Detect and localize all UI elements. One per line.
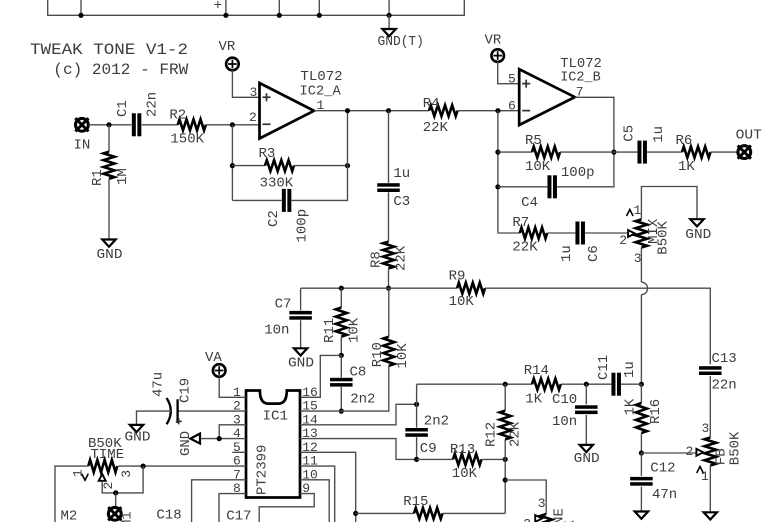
svg-text:10n: 10n — [552, 414, 577, 430]
svg-text:VR: VR — [219, 39, 236, 55]
svg-text:R6: R6 — [676, 133, 693, 149]
svg-text:2: 2 — [249, 110, 257, 125]
svg-text:M1: M1 — [119, 511, 135, 522]
svg-text:2: 2 — [101, 482, 116, 490]
svg-text:22K: 22K — [512, 240, 538, 256]
svg-text:10K: 10K — [525, 159, 551, 175]
svg-text:10n: 10n — [264, 323, 289, 339]
svg-text:C17: C17 — [226, 508, 251, 522]
svg-text:C11: C11 — [596, 355, 612, 380]
svg-text:3: 3 — [250, 85, 258, 100]
svg-text:C13: C13 — [712, 351, 737, 367]
svg-text:B50K: B50K — [727, 431, 743, 465]
svg-text:GND: GND — [574, 451, 600, 467]
svg-text:R14: R14 — [524, 363, 549, 379]
svg-text:3: 3 — [538, 496, 546, 511]
svg-text:B50K: B50K — [656, 220, 672, 254]
svg-text:R1: R1 — [90, 169, 106, 186]
svg-text:1K: 1K — [622, 398, 638, 415]
svg-text:R5: R5 — [525, 133, 542, 149]
svg-text:PT2399: PT2399 — [254, 445, 270, 495]
svg-text:GND: GND — [685, 227, 711, 243]
svg-text:2: 2 — [523, 517, 531, 522]
svg-text:1u: 1u — [651, 126, 667, 143]
svg-text:TWEAK TONE V1-2: TWEAK TONE V1-2 — [30, 41, 188, 59]
svg-text:47n: 47n — [652, 487, 677, 503]
svg-text:GND: GND — [288, 356, 314, 372]
svg-text:2n2: 2n2 — [424, 414, 449, 430]
svg-text:TIME: TIME — [91, 447, 125, 463]
svg-text:6: 6 — [508, 99, 516, 114]
svg-text:1K: 1K — [678, 159, 695, 175]
svg-text:OUT: OUT — [736, 128, 762, 144]
svg-text:C2: C2 — [266, 210, 282, 227]
svg-text:R7: R7 — [512, 215, 529, 231]
svg-text:C6: C6 — [586, 245, 602, 262]
svg-text:3: 3 — [702, 421, 710, 436]
svg-text:10K: 10K — [452, 466, 478, 482]
svg-text:100p: 100p — [561, 165, 595, 181]
svg-text:100p: 100p — [295, 209, 311, 243]
svg-text:22K: 22K — [507, 421, 523, 447]
svg-text:C3: C3 — [393, 194, 410, 210]
svg-text:R4: R4 — [423, 96, 440, 112]
svg-text:1u: 1u — [393, 166, 410, 182]
svg-text:R13: R13 — [450, 442, 475, 458]
svg-text:3: 3 — [119, 470, 134, 478]
svg-text:R3: R3 — [259, 146, 276, 162]
svg-text:C4: C4 — [521, 195, 538, 211]
svg-text:C18: C18 — [156, 508, 181, 522]
svg-text:22n: 22n — [712, 378, 737, 394]
svg-text:22n: 22n — [144, 92, 160, 117]
svg-text:VR: VR — [485, 33, 502, 49]
svg-text:1K: 1K — [525, 392, 542, 408]
svg-text:R9: R9 — [449, 269, 466, 285]
svg-text:R15: R15 — [403, 494, 428, 510]
svg-text:47u: 47u — [150, 372, 166, 397]
svg-text:1u: 1u — [559, 245, 575, 262]
svg-text:IC1: IC1 — [263, 409, 289, 425]
svg-text:TONE: TONE — [552, 508, 568, 522]
svg-text:22K: 22K — [394, 245, 410, 271]
svg-text:IC2_B: IC2_B — [560, 70, 601, 86]
svg-text:M2: M2 — [61, 509, 78, 522]
svg-text:R16: R16 — [648, 399, 664, 424]
svg-text:2n2: 2n2 — [350, 392, 375, 408]
svg-text:GND: GND — [125, 430, 151, 446]
svg-text:R10: R10 — [370, 342, 386, 367]
svg-text:GND(T): GND(T) — [378, 35, 424, 50]
svg-text:(c) 2012 - FRW: (c) 2012 - FRW — [53, 61, 189, 79]
svg-text:C1: C1 — [115, 100, 131, 117]
svg-text:2: 2 — [619, 233, 627, 248]
svg-text:10K: 10K — [347, 317, 363, 343]
svg-text:3: 3 — [634, 251, 642, 266]
svg-text:22K: 22K — [423, 120, 449, 136]
svg-text:R12: R12 — [484, 422, 500, 447]
svg-text:R8: R8 — [369, 251, 385, 268]
svg-text:1: 1 — [634, 203, 642, 218]
svg-text:GND: GND — [97, 247, 123, 263]
svg-text:10K: 10K — [449, 294, 475, 310]
svg-text:10K: 10K — [395, 343, 411, 369]
svg-text:C10: C10 — [552, 392, 577, 408]
svg-text:1M: 1M — [115, 168, 131, 185]
svg-text:R2: R2 — [169, 108, 186, 124]
svg-text:2: 2 — [686, 444, 694, 459]
svg-text:C5: C5 — [621, 125, 637, 142]
svg-text:R11: R11 — [322, 318, 338, 343]
svg-text:150K: 150K — [170, 132, 204, 148]
svg-text:C7: C7 — [275, 297, 292, 313]
svg-text:+: + — [214, 0, 222, 14]
svg-text:C19: C19 — [177, 378, 193, 403]
svg-text:1u: 1u — [622, 361, 638, 378]
svg-text:C12: C12 — [650, 460, 675, 476]
svg-text:C8: C8 — [350, 364, 367, 380]
svg-text:C9: C9 — [420, 441, 437, 457]
svg-text:5: 5 — [508, 72, 516, 87]
svg-text:IN: IN — [74, 138, 91, 154]
svg-text:GND: GND — [178, 431, 194, 456]
